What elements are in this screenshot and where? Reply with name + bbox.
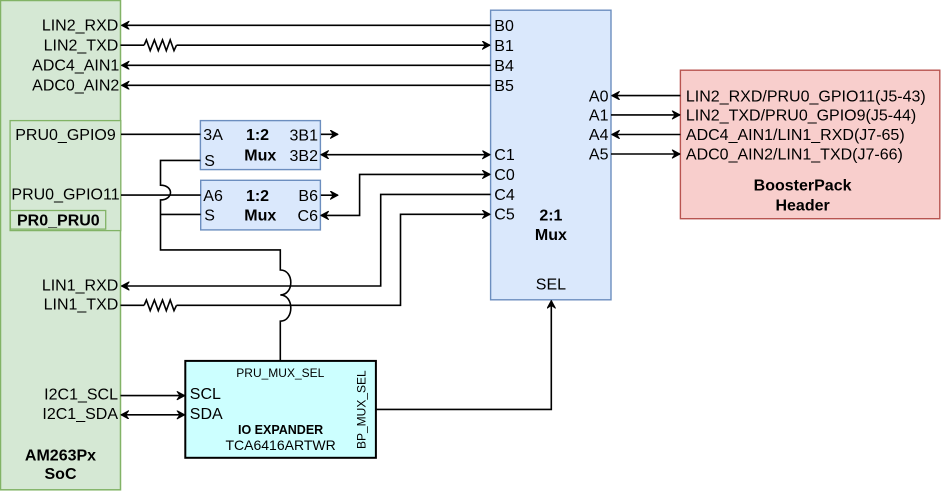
svg-text:SDA: SDA	[190, 406, 223, 423]
svg-text:I2C1_SDA: I2C1_SDA	[42, 406, 118, 423]
svg-text:LIN2_RXD: LIN2_RXD	[42, 18, 118, 35]
svg-text:C1: C1	[494, 147, 515, 164]
svg-text:PRU_MUX_SEL: PRU_MUX_SEL	[236, 366, 324, 380]
wire ADC4_AIN1 (mux B4 to SoC)	[122, 64, 491, 66]
svg-text:BoosterPack: BoosterPack	[754, 178, 852, 195]
wire LIN2_TXD to mux B1	[177, 44, 491, 46]
svg-text:PRU0_GPIO11: PRU0_GPIO11	[11, 187, 119, 204]
svg-text:LIN1_RXD: LIN1_RXD	[42, 277, 118, 294]
wire PRU0_GPIO9 to 3A	[121, 133, 200, 135]
wire LIN1_TXD left segment	[121, 304, 145, 306]
svg-text:SoC: SoC	[45, 466, 77, 483]
svg-text:PR0_PRU0: PR0_PRU0	[17, 212, 100, 229]
svg-text:TCA6416ARTWR: TCA6416ARTWR	[225, 437, 335, 453]
mux U1 1:2 Mux (upper small)	[200, 121, 320, 170]
wire PRU0_GPIO11 to A6	[121, 194, 201, 196]
wire B6 output stub	[321, 194, 338, 196]
wire A1 (mux A1 to BoosterPack)	[611, 114, 680, 116]
svg-text:B0: B0	[494, 18, 514, 35]
svg-text:AM263Px: AM263Px	[25, 447, 96, 464]
svg-text:I2C1_SCL: I2C1_SCL	[44, 387, 118, 404]
svg-text:C5: C5	[494, 207, 515, 224]
block U4 IO EXPANDER TCA6416ARTWR	[185, 361, 376, 458]
wire 3B2 to C1 (bidirectional)	[321, 154, 490, 156]
svg-text:Header: Header	[775, 197, 829, 214]
svg-text:Mux: Mux	[244, 208, 276, 225]
wire LIN2_TXD left segment	[121, 44, 145, 46]
svg-text:A1: A1	[589, 107, 609, 124]
block U_SOC AM263Px SoC	[1, 1, 121, 490]
svg-text:C6: C6	[298, 208, 319, 225]
wire C4 to LIN1_RXD	[122, 194, 491, 286]
svg-text:B6: B6	[298, 188, 318, 205]
wire LIN2_RXD (mux B0 to SoC)	[122, 24, 491, 26]
svg-text:A0: A0	[589, 88, 609, 105]
svg-text:B4: B4	[494, 58, 514, 75]
svg-text:ADC4_AIN1: ADC4_AIN1	[32, 58, 119, 75]
svg-text:Mux: Mux	[244, 148, 276, 165]
svg-text:S: S	[204, 153, 215, 170]
block J1 BoosterPack Header	[680, 70, 939, 219]
svg-text:IO EXPANDER: IO EXPANDER	[238, 423, 323, 437]
mux U3 2:1 Mux (large)	[491, 10, 611, 300]
svg-text:A6: A6	[203, 188, 223, 205]
resistor R1 (LIN2_TXD series)	[144, 40, 176, 51]
svg-text:SEL: SEL	[536, 277, 566, 294]
svg-text:3B1: 3B1	[290, 127, 319, 144]
svg-text:1:2: 1:2	[246, 188, 269, 205]
svg-text:Mux: Mux	[535, 227, 567, 244]
svg-text:A4: A4	[589, 127, 609, 144]
resistor R2 (LIN1_TXD series)	[144, 300, 176, 311]
svg-text:LIN2_TXD/PRU0_GPIO9(J5-44): LIN2_TXD/PRU0_GPIO9(J5-44)	[686, 107, 916, 124]
svg-text:C4: C4	[494, 187, 515, 204]
svg-text:ADC0_AIN2: ADC0_AIN2	[32, 78, 119, 95]
svg-text:LIN1_TXD: LIN1_TXD	[44, 296, 119, 313]
svg-text:3A: 3A	[203, 127, 223, 144]
wire I2C1_SCL to SCL	[121, 395, 185, 397]
svg-text:2:1: 2:1	[539, 207, 562, 224]
svg-text:ADC4_AIN1/LIN1_RXD(J7-65): ADC4_AIN1/LIN1_RXD(J7-65)	[686, 127, 905, 144]
mux U2 1:2 Mux (lower small)	[201, 180, 321, 230]
wire A0 (BoosterPack to mux A0)	[612, 95, 681, 97]
block PR0_PRU0 label box	[10, 211, 105, 230]
svg-text:C0: C0	[494, 167, 515, 184]
wire A4 (BoosterPack to mux A4)	[612, 134, 681, 136]
svg-text:ADC0_AIN2/LIN1_TXD(J7-66): ADC0_AIN2/LIN1_TXD(J7-66)	[686, 147, 903, 164]
wire A5 (mux A5 to BoosterPack)	[611, 153, 680, 155]
svg-text:S: S	[204, 208, 215, 225]
svg-text:LIN2_RXD/PRU0_GPIO11(J5-43): LIN2_RXD/PRU0_GPIO11(J5-43)	[686, 88, 926, 105]
svg-text:PRU0_GPIO9: PRU0_GPIO9	[15, 127, 116, 144]
wire BP_MUX_SEL to SEL	[376, 301, 551, 410]
block PRU0 sub-module (PRU0_GPIO group)	[10, 121, 121, 231]
wire 3B1 output stub	[321, 133, 338, 135]
svg-text:3B2: 3B2	[290, 148, 319, 165]
svg-text:LIN2_TXD: LIN2_TXD	[44, 37, 119, 54]
wire C6 to C0 (bidirectional)	[321, 174, 490, 215]
svg-text:SCL: SCL	[190, 386, 221, 403]
wire ADC0_AIN2 (mux B5 to SoC)	[122, 84, 491, 86]
wire S branch to lower mux	[161, 213, 201, 215]
svg-text:B1: B1	[494, 38, 514, 55]
svg-text:BP_MUX_SEL: BP_MUX_SEL	[355, 370, 369, 449]
wire I2C1_SDA to SDA (bidirectional)	[121, 414, 185, 416]
wire LIN1_TXD to mux C5	[177, 214, 491, 305]
wire PRU_MUX_SEL net (IO expander to S pins, with hops)	[161, 160, 291, 361]
svg-text:1:2: 1:2	[246, 127, 269, 144]
svg-text:A5: A5	[589, 147, 609, 164]
svg-text:B5: B5	[494, 78, 514, 95]
